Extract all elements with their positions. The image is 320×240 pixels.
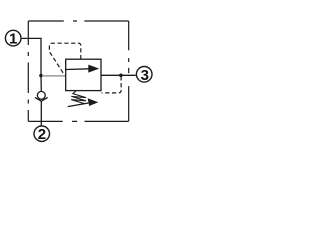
wire node A to valve inlet (gray) (42, 75, 66, 77)
drain line (dashed) from spring chamber to node B (102, 77, 122, 93)
node B junction dot (119, 74, 123, 78)
node A junction dot (39, 74, 43, 78)
port 2 circle (34, 126, 50, 142)
wire port1 to corner and down to node A (22, 38, 41, 75)
enclosure border right (dash-dot) (128, 21, 130, 121)
svg-text:1: 1 (9, 31, 17, 48)
enclosure border bottom (dash-dot) (28, 120, 128, 122)
wire node A down to check valve (40, 76, 42, 92)
valve V1 envelope (66, 59, 101, 90)
check valve CV1 ball (37, 91, 45, 99)
adjustment arrow through spring (68, 103, 89, 107)
enclosure border top (dash-dot) (28, 20, 128, 22)
svg-text:3: 3 (141, 67, 149, 84)
port 1 circle (5, 30, 21, 46)
spring (adjustable) (71, 91, 86, 104)
wire valve outlet to port 3 (101, 74, 136, 76)
svg-text:2: 2 (38, 126, 46, 143)
wire check valve to port 2 (40, 101, 42, 125)
check valve CV1 seat (35, 97, 48, 101)
enclosure border left (dash-dot) (27, 21, 29, 121)
valve V1 flow path arrow (66, 68, 90, 71)
port 3 circle (136, 67, 152, 83)
pilot line (dashed) from valve inlet to spool top (49, 43, 80, 75)
